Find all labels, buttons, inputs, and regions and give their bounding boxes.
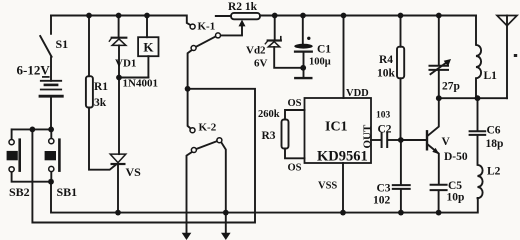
svg-text:6V: 6V: [254, 58, 268, 70]
svg-text:SB1: SB1: [57, 185, 78, 199]
svg-text:R4: R4: [379, 54, 393, 66]
svg-text:C5: C5: [448, 180, 462, 192]
svg-text:27p: 27p: [442, 81, 460, 93]
svg-text:10k: 10k: [377, 68, 396, 80]
svg-text:102: 102: [373, 195, 391, 207]
svg-text:D-50: D-50: [444, 151, 468, 163]
svg-text:OUT: OUT: [362, 124, 374, 149]
svg-text:L2: L2: [487, 166, 501, 178]
svg-text:R2 1k: R2 1k: [228, 1, 258, 13]
svg-text:C2: C2: [378, 124, 392, 136]
svg-text:10p: 10p: [447, 192, 465, 204]
svg-text:VSS: VSS: [318, 181, 337, 192]
svg-text:C6: C6: [487, 125, 501, 137]
svg-text:C3: C3: [377, 183, 391, 195]
svg-text:1N4001: 1N4001: [123, 78, 158, 90]
svg-text:100μ: 100μ: [309, 57, 331, 68]
svg-text:VDD: VDD: [346, 88, 369, 99]
svg-text:6-12V: 6-12V: [17, 63, 51, 78]
svg-text:VS: VS: [126, 165, 142, 179]
svg-text:IC1: IC1: [325, 120, 348, 135]
svg-text:Vd2: Vd2: [246, 45, 266, 57]
svg-text:S1: S1: [56, 37, 69, 51]
svg-text:K: K: [143, 40, 154, 55]
svg-text:VD1: VD1: [115, 58, 136, 70]
svg-text:C1: C1: [317, 44, 331, 56]
svg-text:KD9561: KD9561: [317, 149, 368, 165]
svg-text:SB2: SB2: [9, 185, 30, 199]
svg-text:R3: R3: [262, 130, 276, 142]
svg-text:OS: OS: [288, 163, 302, 174]
svg-text:103: 103: [376, 111, 391, 121]
svg-text:18p: 18p: [486, 138, 504, 150]
svg-text:3k: 3k: [94, 97, 107, 109]
svg-text:L1: L1: [484, 70, 498, 82]
svg-text:OS: OS: [288, 98, 302, 109]
svg-text:K-2: K-2: [199, 122, 217, 134]
svg-text:R1: R1: [94, 81, 108, 93]
svg-text:K-1: K-1: [198, 21, 216, 33]
svg-text:260k: 260k: [258, 109, 280, 120]
svg-text:V: V: [442, 136, 451, 148]
